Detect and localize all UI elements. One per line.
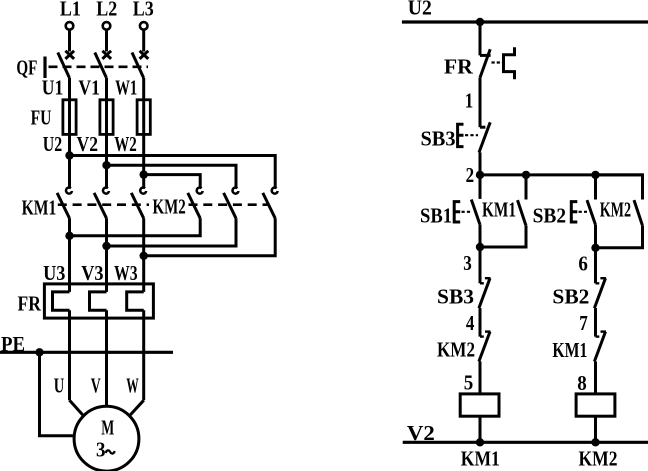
junction W phase lower — [140, 252, 148, 260]
relay FR NC contact blade — [480, 49, 490, 77]
terminal circle L1 — [66, 22, 74, 30]
svg-text:V2: V2 — [77, 132, 99, 156]
wire KM1 pole 2 to FR — [105, 218, 108, 292]
svg-text:M: M — [101, 415, 114, 439]
svg-text:KM1: KM1 — [482, 198, 516, 222]
contactor KM2 main contact pole 2 — [224, 188, 239, 219]
button SB2 lower NC contact — [594, 278, 606, 308]
button SB3 NC blade — [479, 122, 490, 152]
svg-text:FU: FU — [31, 106, 52, 130]
KM linkage dashed line right — [189, 203, 270, 206]
wire node3 segment — [479, 247, 482, 283]
svg-text:W3: W3 — [114, 261, 138, 285]
wire KM2 pole 3 bottom to W phase — [144, 218, 276, 256]
wire KM1 aux bottom — [480, 226, 526, 247]
relay FR trip symbol — [504, 47, 515, 79]
svg-text:U2: U2 — [408, 0, 432, 20]
wire FR contact to node 1 — [479, 78, 482, 128]
terminal circle L3 — [140, 22, 148, 30]
junction SB2 top — [591, 171, 599, 179]
wire KM2 aux bottom — [596, 226, 643, 248]
wire coil KM1 to bus V2 — [479, 416, 482, 442]
wire node 8 segment — [594, 362, 597, 394]
junction U phase lower — [65, 232, 73, 240]
svg-text:KM2: KM2 — [437, 338, 475, 362]
wire QF to FU pole 1 — [68, 78, 71, 100]
wire PE to motor frame — [40, 352, 75, 435]
button SB3 linkage dashes — [465, 134, 478, 136]
wire L1 to QF — [68, 30, 71, 52]
svg-text:U3: U3 — [43, 261, 65, 285]
wire node6 segment — [594, 248, 597, 283]
contactor KM1 main contact pole 2 — [94, 188, 109, 219]
svg-text:6: 6 — [578, 252, 588, 276]
contact KM2 interlock NC — [479, 332, 491, 362]
svg-text:V: V — [91, 374, 101, 398]
junction U2 phase — [65, 151, 73, 159]
svg-text:3: 3 — [96, 438, 106, 462]
contactor KM2 main contact pole 3 — [263, 188, 278, 219]
svg-text:SB2: SB2 — [552, 285, 589, 309]
svg-text:8: 8 — [577, 371, 587, 395]
wire U2 to KM2 pole 3 top — [70, 156, 276, 188]
wire SB3 to node 2 — [479, 153, 482, 175]
wire FR to motor W — [142, 310, 145, 400]
svg-text:W1: W1 — [115, 76, 137, 100]
contact KM2 aux NO blade — [634, 200, 643, 226]
button SB3 NC stop bar — [480, 126, 485, 129]
svg-text:4: 4 — [466, 311, 475, 335]
junction SB2 bottom — [591, 244, 599, 252]
breaker QF pole 2 blade — [95, 53, 107, 79]
svg-text:L2: L2 — [96, 0, 117, 20]
svg-text:3: 3 — [463, 251, 472, 275]
svg-text:SB3: SB3 — [421, 127, 456, 151]
wire SB2 to node 6 junction — [594, 225, 597, 248]
wire SB1 to node 3 junction — [479, 225, 482, 247]
contact KM1 interlock NC — [594, 332, 606, 362]
wire node 5 segment — [479, 362, 482, 394]
contactor KM1 main contact pole 3 — [131, 188, 146, 219]
contact KM1 aux NO wire top — [525, 175, 528, 200]
button SB2 NO blade — [587, 200, 596, 225]
relay FR NC contact stop bar — [480, 54, 491, 57]
wire V2 to KM2 pole 2 top — [107, 165, 237, 187]
contactor KM1 main contact pole 1 — [57, 188, 72, 219]
wire node 2 rail — [480, 173, 643, 176]
svg-text:KM1: KM1 — [552, 338, 587, 362]
button SB1 actuator — [454, 202, 460, 222]
fuse FU pole 1 — [63, 100, 76, 135]
svg-text:U1: U1 — [42, 76, 64, 100]
KM linkage dashed line left — [58, 203, 149, 206]
svg-text:V3: V3 — [81, 261, 103, 285]
junction W2 phase — [140, 170, 148, 178]
wire node 4 segment — [479, 308, 482, 337]
junction node 2 — [476, 171, 484, 179]
wire KM1 pole 1 to FR — [68, 218, 71, 292]
wire FR to motor V — [105, 310, 108, 406]
junction KM1 aux top — [522, 171, 530, 179]
contact KM1 aux NO blade — [518, 200, 527, 226]
svg-text:W: W — [126, 374, 139, 398]
wire QF to FU pole 3 — [142, 78, 145, 100]
svg-text:KM1: KM1 — [461, 447, 500, 471]
breaker QF linkage dashed line — [49, 66, 149, 69]
svg-text:7: 7 — [579, 311, 588, 335]
wire node2 to SB1 — [479, 175, 482, 199]
svg-text:L3: L3 — [133, 0, 154, 20]
svg-text:U: U — [54, 374, 65, 398]
wire motor lead U slant — [70, 400, 84, 416]
svg-text:2: 2 — [466, 163, 475, 187]
wire KM2 pole 1 bottom to U phase — [70, 218, 201, 236]
breaker QF pole 3 contact cross — [140, 51, 149, 59]
svg-text:KM1: KM1 — [22, 196, 57, 220]
thermal relay FR heater phase 3 — [127, 292, 144, 310]
svg-text:KM2: KM2 — [153, 194, 186, 218]
button SB1 linkage dashes — [462, 211, 471, 213]
svg-text:W2: W2 — [114, 132, 137, 156]
breaker QF actuator bar — [43, 57, 46, 79]
terminal circle L2 — [103, 22, 111, 30]
fuse FU pole 3 — [137, 100, 150, 135]
bus V2 bottom — [403, 441, 648, 444]
thermal relay FR outer box — [44, 284, 153, 318]
svg-text:FR: FR — [444, 54, 474, 78]
fuse FU pole 2 — [100, 100, 113, 135]
wire W2 to KM2 pole 1 top — [144, 175, 201, 188]
breaker QF pole 3 blade — [132, 53, 144, 79]
coil KM1 — [460, 394, 499, 416]
motor M circle — [74, 406, 139, 471]
wire node2 to SB2 — [594, 175, 597, 200]
junction V2 phase — [102, 161, 110, 169]
breaker QF pole 1 contact cross — [65, 51, 74, 59]
contact KM2 aux NO wire top — [596, 175, 643, 200]
breaker QF pole 2 contact cross — [102, 51, 111, 59]
svg-text:U2: U2 — [43, 132, 62, 156]
breaker QF pole 1 blade — [58, 53, 70, 79]
relay FR linkage dashes — [492, 61, 504, 63]
svg-text:KM2: KM2 — [579, 447, 618, 471]
wire FU to KM1 pole 1 — [68, 134, 71, 187]
wire motor lead W slant — [129, 400, 143, 416]
svg-text:SB2: SB2 — [533, 204, 567, 228]
svg-text:1: 1 — [465, 89, 474, 113]
wire KM2 pole 2 bottom to V phase — [107, 218, 237, 246]
button SB2 actuator — [571, 202, 577, 222]
junction coil KM2 bus — [591, 438, 599, 446]
junction PE — [35, 348, 43, 356]
junction control top — [476, 18, 484, 26]
wire L3 to QF — [142, 30, 145, 52]
wire FR to motor U — [68, 310, 71, 400]
button SB1 NO blade — [471, 200, 480, 225]
svg-text:5: 5 — [464, 370, 474, 394]
bus U2 control top — [402, 20, 648, 23]
wire bus to FR contact — [479, 22, 482, 55]
button SB3 lower NC contact — [479, 278, 491, 308]
ground line PE — [0, 351, 173, 354]
wire FU to KM1 pole 2 — [105, 134, 108, 187]
junction coil KM1 bus — [476, 438, 484, 446]
wire coil KM2 to bus V2 — [594, 416, 597, 442]
button SB3 actuator — [458, 124, 464, 146]
svg-text:V1: V1 — [78, 76, 100, 100]
wire FU to KM1 pole 3 — [142, 134, 145, 187]
junction SB1 bottom — [476, 243, 484, 251]
coil KM2 — [576, 394, 615, 416]
svg-text:FR: FR — [18, 292, 42, 316]
svg-text:KM2: KM2 — [600, 198, 631, 222]
svg-text:QF: QF — [16, 55, 37, 79]
wire node 7 segment — [594, 308, 597, 337]
button SB2 linkage dashes — [579, 211, 587, 213]
svg-text:SB3: SB3 — [437, 285, 474, 309]
svg-text:SB1: SB1 — [420, 204, 452, 228]
thermal relay FR heater phase 2 — [90, 292, 107, 310]
thermal relay FR heater phase 1 — [53, 292, 70, 310]
wire L2 to QF — [105, 30, 108, 52]
svg-text:L1: L1 — [60, 0, 81, 20]
junction V phase lower — [102, 242, 110, 250]
wire QF to FU pole 2 — [105, 78, 108, 100]
contactor KM2 main contact pole 1 — [188, 188, 203, 219]
wire KM1 pole 3 to FR — [142, 218, 145, 292]
